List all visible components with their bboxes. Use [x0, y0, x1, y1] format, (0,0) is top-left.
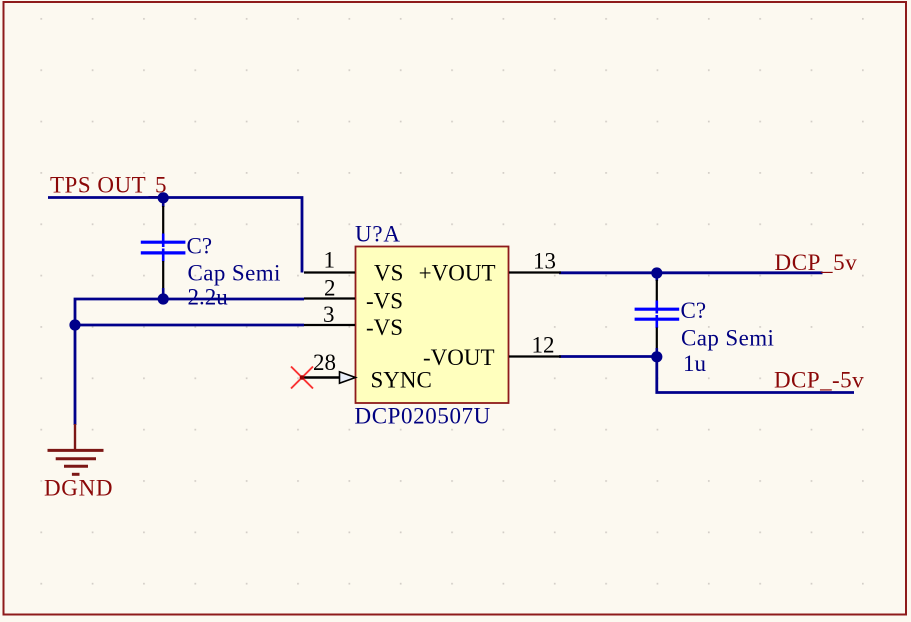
svg-text:-VS: -VS	[366, 315, 403, 340]
svg-text:28: 28	[313, 350, 336, 375]
svg-text:13: 13	[533, 249, 556, 274]
svg-text:DCP_-5v: DCP_-5v	[774, 368, 864, 393]
capacitor C1 plates	[141, 241, 186, 244]
svg-text:Cap Semi: Cap Semi	[681, 326, 774, 351]
svg-text:+VOUT: +VOUT	[419, 261, 496, 286]
wire +VOUT to DCP_5v	[559, 271, 823, 274]
junction node +VOUT / C2 top	[651, 267, 662, 278]
svg-text:12: 12	[532, 333, 555, 358]
wire pin3 net	[75, 324, 304, 327]
svg-text:C?: C?	[187, 234, 213, 259]
junction node C1 bottom / pin2 wire	[158, 293, 169, 304]
junction node left vertical / pin3 wire	[69, 319, 80, 330]
svg-text:U?A: U?A	[355, 222, 401, 247]
capacitor C2 leads	[655, 273, 658, 281]
no-ERC marker center dot	[300, 375, 305, 380]
wire -VOUT to C2 junction	[559, 355, 657, 358]
svg-text:1u: 1u	[683, 351, 707, 376]
pin 13 +VOUT	[509, 271, 561, 273]
pin 28 SYNC	[302, 376, 340, 378]
svg-text:DGND: DGND	[44, 476, 113, 501]
svg-text:TPS OUT: TPS OUT	[50, 173, 146, 198]
svg-text:-VOUT: -VOUT	[423, 345, 495, 370]
no-connect X marker	[291, 367, 313, 389]
svg-text:3: 3	[323, 302, 335, 327]
ground symbol DGND	[48, 450, 104, 474]
svg-text:DCP020507U: DCP020507U	[355, 404, 491, 429]
net label underscore fragment	[149, 196, 167, 198]
pin 12 -VOUT	[509, 355, 561, 357]
svg-text:VS: VS	[374, 261, 403, 286]
svg-text:2: 2	[324, 276, 336, 301]
svg-text:2.2u: 2.2u	[188, 285, 229, 310]
svg-text:DCP_5v: DCP_5v	[775, 250, 858, 275]
svg-text:1: 1	[324, 248, 336, 273]
junction node -VOUT / C2 bottom	[651, 351, 662, 362]
svg-text:C?: C?	[681, 298, 707, 323]
wire TPS OUT_5 net: horizontal then down to pin 1	[48, 198, 302, 273]
svg-text:-VS: -VS	[366, 289, 403, 314]
pin 28 input arrow	[340, 372, 356, 383]
pin 1 VS	[304, 271, 355, 273]
svg-text:SYNC: SYNC	[371, 368, 432, 393]
pin 2 -VS	[304, 297, 355, 299]
svg-text:Cap Semi: Cap Semi	[188, 261, 281, 286]
wire pin2 net: horizontal and down the left side	[75, 299, 304, 425]
capacitor C2 plates	[635, 308, 680, 311]
pin 3 -VS	[304, 324, 355, 326]
junction node at TPS/C1	[158, 192, 169, 203]
ground lead	[74, 424, 76, 449]
capacitor C1 leads	[162, 198, 165, 207]
op-amp/converter U?A body	[356, 247, 509, 404]
svg-text:5: 5	[155, 173, 167, 198]
wire C2 junction down and right to DCP_-5v	[657, 357, 854, 393]
